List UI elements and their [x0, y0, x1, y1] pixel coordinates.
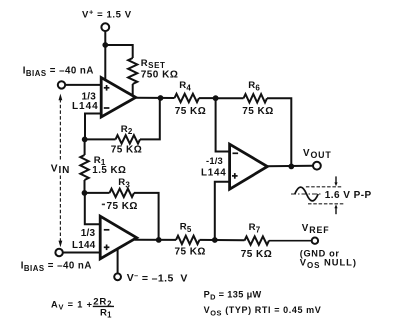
svg-text:L144: L144 [72, 101, 99, 112]
svg-text:L144: L144 [72, 240, 96, 251]
svg-text:75 KΩ: 75 KΩ [241, 249, 272, 260]
svg-text:-1/3: -1/3 [206, 155, 223, 166]
svg-text:1.6 V P-P: 1.6 V P-P [325, 190, 372, 201]
svg-text:75 KΩ: 75 KΩ [111, 144, 142, 155]
svg-text:75 KΩ: 75 KΩ [242, 106, 273, 117]
svg-text:VREF: VREF [302, 223, 330, 235]
svg-text:75 KΩ: 75 KΩ [175, 247, 206, 258]
svg-text:1/3: 1/3 [81, 228, 96, 239]
svg-text:75 KΩ: 75 KΩ [107, 201, 138, 212]
svg-text:750 KΩ: 750 KΩ [141, 69, 179, 80]
svg-text:1.5 KΩ: 1.5 KΩ [92, 165, 126, 176]
svg-text:VOUT: VOUT [303, 148, 332, 160]
svg-text:VIN: VIN [51, 163, 71, 176]
svg-text:75 KΩ: 75 KΩ [175, 106, 206, 117]
svg-text:L144: L144 [201, 167, 227, 178]
